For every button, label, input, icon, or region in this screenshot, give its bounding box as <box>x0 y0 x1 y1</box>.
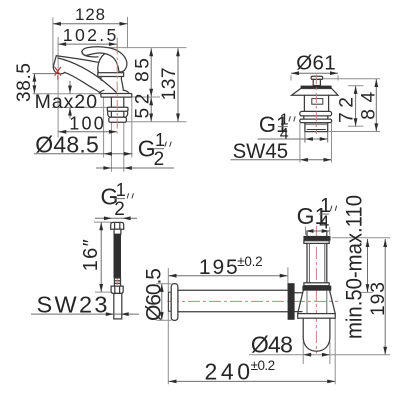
svg-text:1: 1 <box>155 130 165 150</box>
svg-text:±0.2: ±0.2 <box>237 254 263 269</box>
svg-text:240: 240 <box>205 358 251 384</box>
svg-text:128: 128 <box>75 5 105 24</box>
svg-text:193: 193 <box>368 282 389 316</box>
svg-text:1: 1 <box>116 180 126 200</box>
svg-text:Ø48.5: Ø48.5 <box>35 132 99 158</box>
svg-text:Ø48: Ø48 <box>251 331 293 357</box>
svg-text:38.5: 38.5 <box>14 63 35 102</box>
svg-text:2: 2 <box>154 149 165 170</box>
svg-text:±0.2: ±0.2 <box>251 358 276 373</box>
svg-text:102.5: 102.5 <box>63 25 117 45</box>
svg-text:Max20: Max20 <box>35 91 98 113</box>
svg-text:100: 100 <box>69 113 104 133</box>
svg-text:Ø61: Ø61 <box>296 52 335 75</box>
svg-text:2: 2 <box>114 199 125 220</box>
svg-text:Ø60.5: Ø60.5 <box>142 268 165 321</box>
svg-text:SW23: SW23 <box>37 291 108 317</box>
svg-text:16″: 16″ <box>80 239 102 271</box>
svg-text:4: 4 <box>319 212 329 232</box>
svg-text:min.50-max.110: min.50-max.110 <box>341 195 366 339</box>
svg-text:137: 137 <box>159 67 180 100</box>
